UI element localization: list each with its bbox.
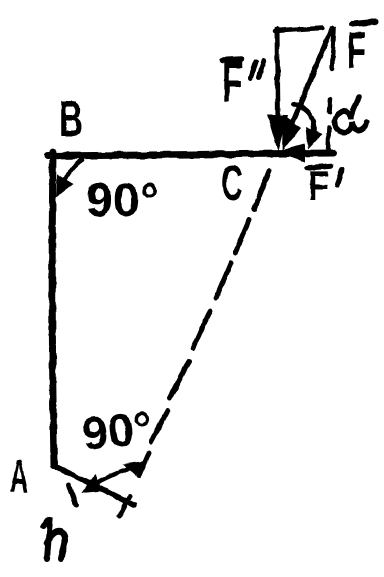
segment from A to foot of perpendicular (54, 466, 134, 505)
dashed line of action dash 1 (254, 171, 269, 209)
dashed line of action dash 2 (235, 220, 249, 253)
prime of F' label (337, 169, 342, 185)
right angle mark at B arrowhead (56, 174, 74, 198)
foot arc left arrowhead (81, 475, 103, 493)
right angle mark at B arc (64, 160, 82, 182)
vector F' shaft (298, 152, 333, 153)
overbar of F'' label (222, 59, 241, 60)
label alpha (hand-drawn script) (335, 97, 367, 132)
wire AB vertical left side (52, 152, 54, 466)
svg-text:90°: 90° (86, 173, 159, 226)
vector F' arrowhead (275, 144, 305, 162)
parallelogram top side (275, 28, 322, 31)
parallelogram right side dash 2 (329, 99, 330, 112)
angle alpha arc arrowhead (306, 127, 322, 149)
vector F'' arrowhead (267, 115, 288, 151)
vector F arrowhead (282, 114, 301, 151)
parallelogram right side dash 1 (332, 29, 334, 69)
dashed line of action dash 3 (216, 263, 231, 298)
overbar of F' label (307, 166, 331, 168)
svg-text:F: F (308, 162, 329, 209)
right angle arc at foot of perpendicular (89, 465, 139, 487)
double prime of F'' label (251, 60, 264, 78)
wire BC horizontal beam (48, 153, 333, 156)
svg-text:A: A (10, 450, 28, 502)
dashed line of action dash 7 (139, 453, 149, 476)
dashed line of action dash 8 (119, 496, 130, 517)
label h (43, 520, 65, 559)
dashed line of action dash 5 (170, 361, 189, 398)
svg-text:F: F (222, 50, 243, 115)
svg-text:F: F (347, 22, 366, 80)
angle alpha arc (293, 104, 314, 140)
vector F shaft diagonal (292, 28, 332, 124)
tick mark h on segment (69, 485, 76, 505)
svg-text:B: B (59, 90, 83, 147)
foot arc right arrowhead (123, 461, 145, 476)
dashed line of action dash 4 (193, 311, 210, 348)
parallelogram right side dash 3 (328, 127, 329, 151)
dashed line of action dash 6 (151, 410, 168, 442)
overbar of F label (352, 22, 375, 24)
svg-text:C: C (221, 155, 243, 211)
svg-text:90°: 90° (80, 401, 155, 460)
vector F'' shaft (277, 29, 278, 122)
